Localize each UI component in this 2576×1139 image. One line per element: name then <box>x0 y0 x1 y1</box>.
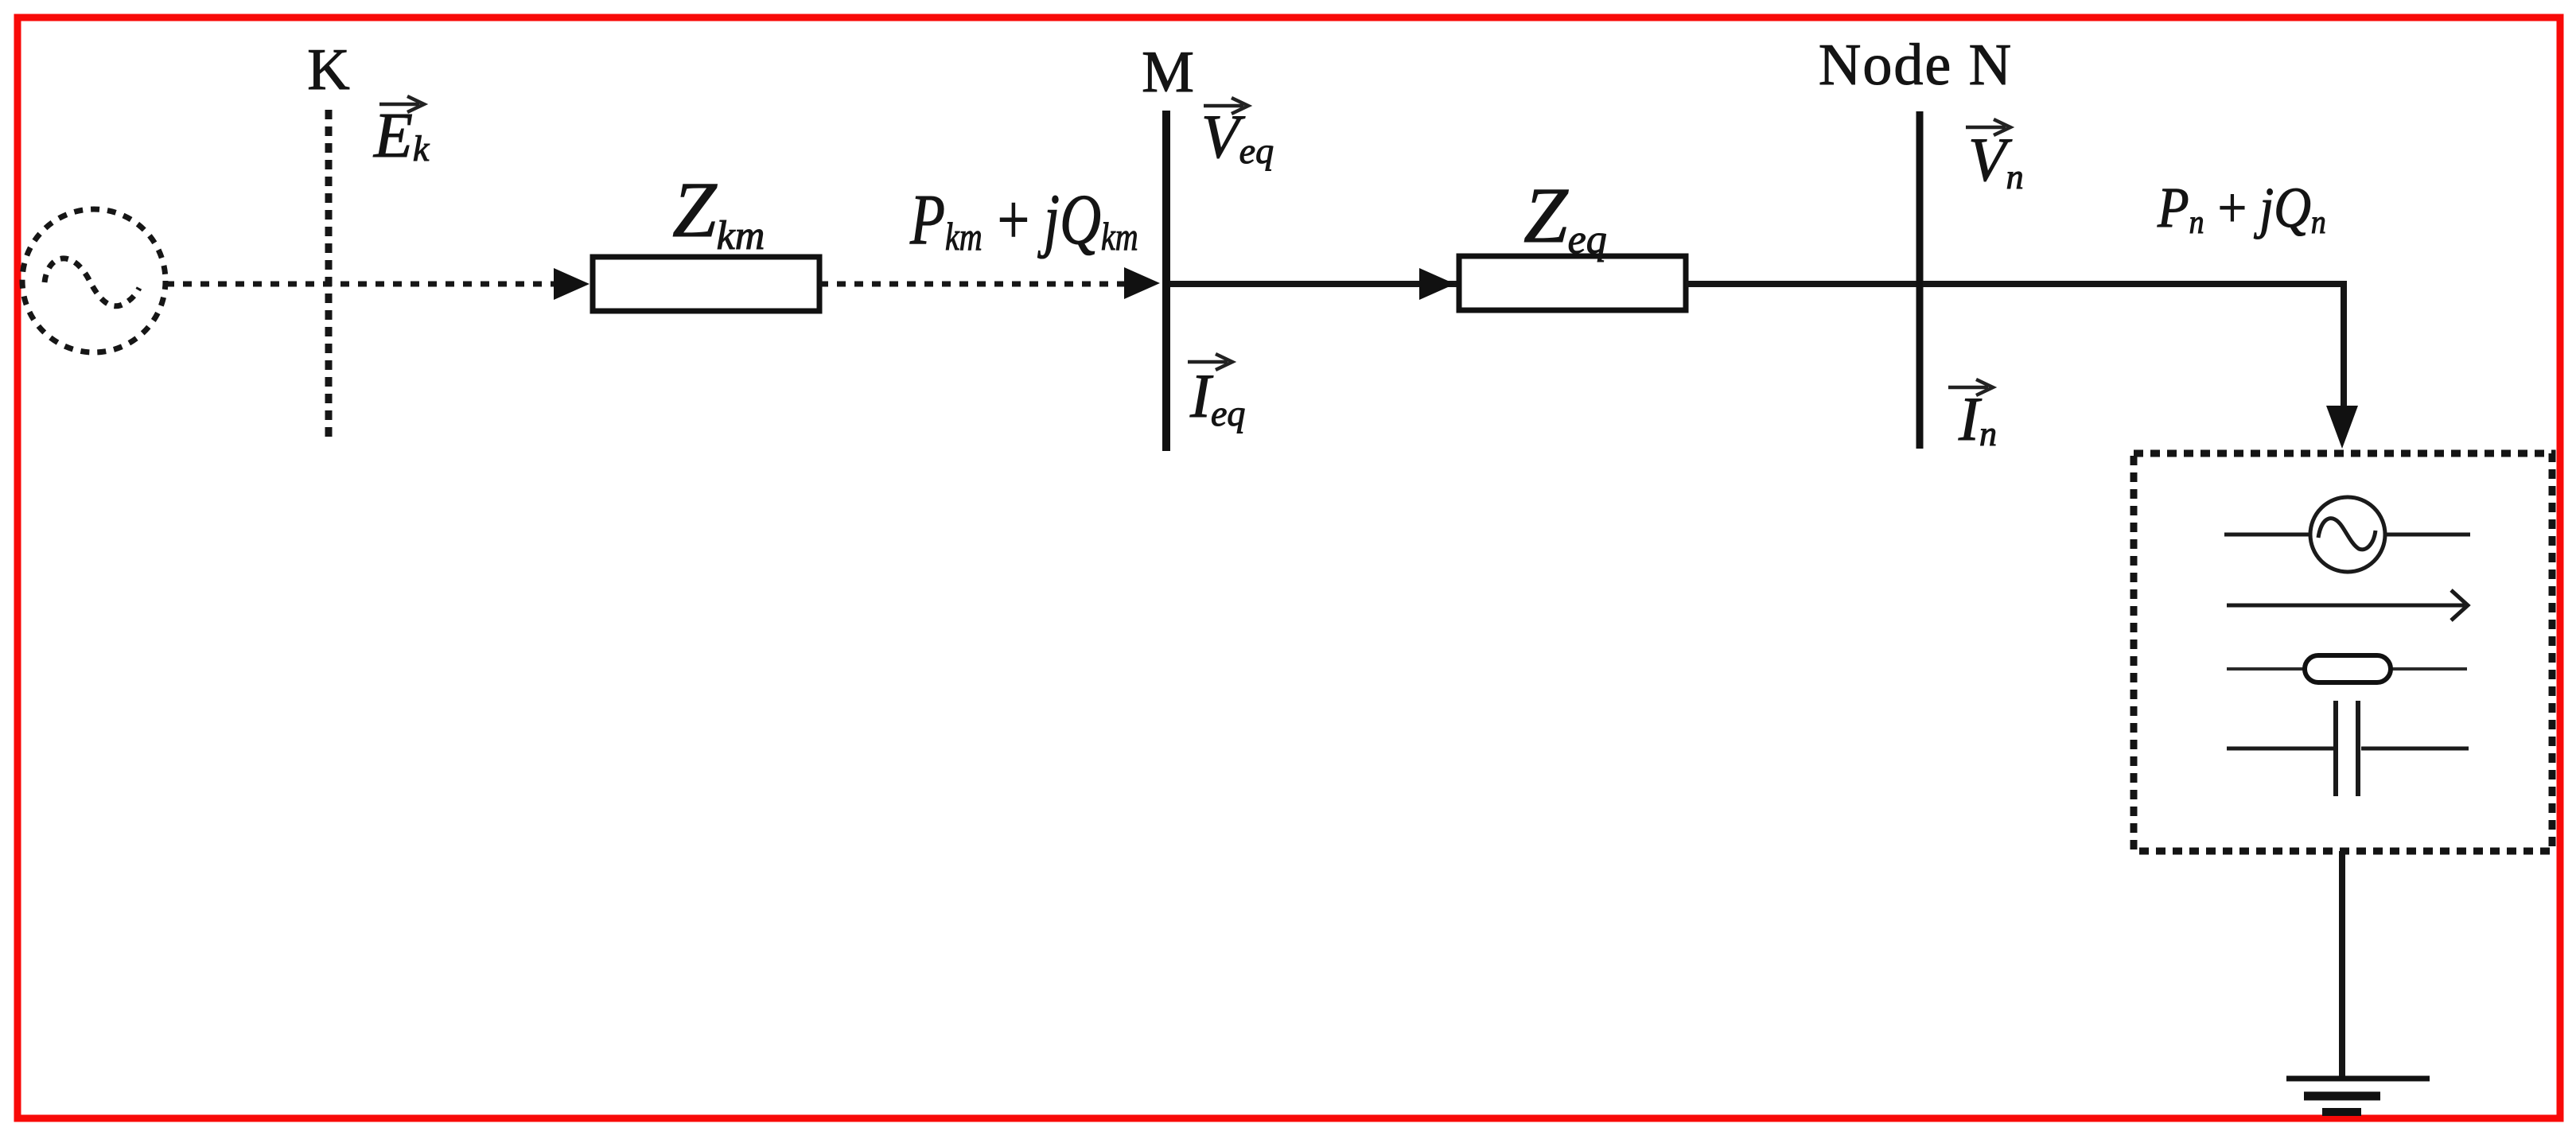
wire solid: bus N to corner <box>1923 281 2344 287</box>
wire down to load <box>2341 281 2347 409</box>
load resistor row <box>2227 655 2467 682</box>
label Ieq with vector arrow <box>1188 354 1245 433</box>
load model dashed box <box>2134 453 2552 851</box>
resistor Zeq box <box>1459 256 1686 310</box>
ground <box>2286 1079 2430 1112</box>
arrowhead into load box <box>2326 406 2358 449</box>
wire solid: bus M to Zeq <box>1170 281 1459 287</box>
ac source generator (left, dashed) <box>22 209 165 352</box>
label Ek with vector arrow <box>373 96 430 171</box>
svg-text:Node N: Node N <box>1819 33 2013 98</box>
wire dashed: Zkm to bus M <box>819 282 1127 287</box>
load current arrow row <box>2227 590 2468 620</box>
load capacitor row <box>2227 701 2469 796</box>
svg-text:M: M <box>1142 40 1194 105</box>
arrowhead into Zkm <box>554 268 590 300</box>
label Vn with vector arrow <box>1966 119 2024 196</box>
label Veq with vector arrow <box>1201 98 1274 171</box>
arrowhead into bus M <box>1124 267 1160 299</box>
bus K (dashed) <box>325 110 333 444</box>
label In with vector arrow <box>1948 379 1997 453</box>
wire: load box to ground <box>2339 851 2345 1078</box>
load ac source symbol <box>2224 497 2470 572</box>
wire dashed: source to Zkm <box>165 282 555 287</box>
svg-text:K: K <box>307 37 349 103</box>
bus N <box>1916 111 1924 449</box>
bus M <box>1162 111 1170 451</box>
wire solid: Zeq to bus N <box>1686 281 1916 287</box>
svg-text:Pn + jQn: Pn + jQn <box>2157 176 2326 241</box>
resistor Zkm box <box>593 257 819 311</box>
arrowhead into Zeq <box>1419 268 1455 300</box>
